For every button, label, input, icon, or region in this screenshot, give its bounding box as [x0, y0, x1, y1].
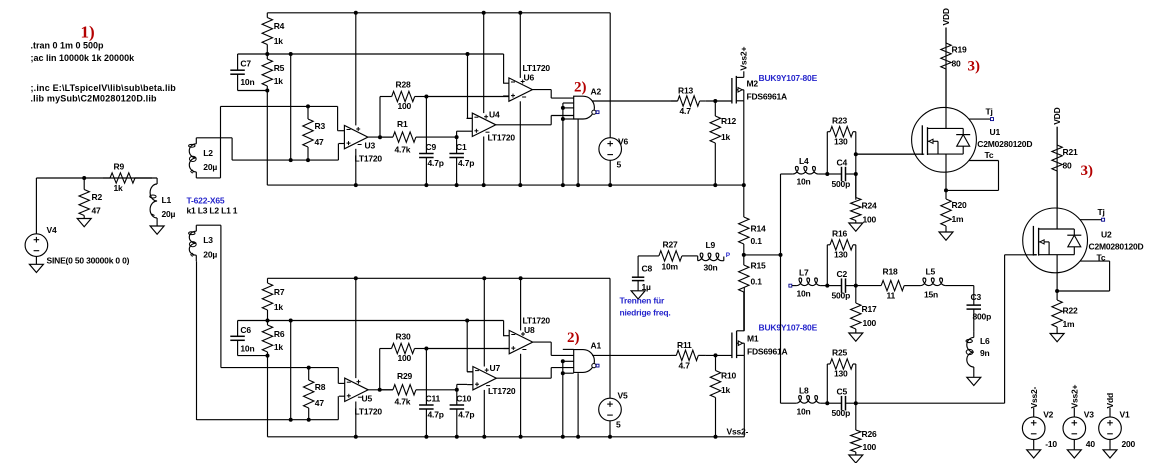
svg-text:Vss2-: Vss2-	[1029, 386, 1039, 408]
svg-text:M2: M2	[747, 79, 759, 89]
svg-text:10n: 10n	[240, 344, 254, 354]
svg-text:U1: U1	[990, 127, 1001, 137]
svg-text:R8: R8	[315, 382, 326, 392]
svg-text:200: 200	[1122, 439, 1136, 449]
svg-text:V4: V4	[47, 225, 57, 235]
svg-text:FDS6961A: FDS6961A	[747, 92, 788, 102]
svg-text:U8: U8	[524, 325, 535, 335]
svg-text:V5: V5	[618, 391, 628, 401]
svg-text:L8: L8	[799, 386, 809, 396]
svg-text:R25: R25	[832, 348, 847, 358]
svg-text:10m: 10m	[662, 262, 679, 272]
svg-text:LT1720: LT1720	[355, 154, 383, 164]
svg-text:4.7p: 4.7p	[458, 410, 474, 420]
svg-text:R7: R7	[274, 287, 285, 297]
svg-text:A2: A2	[591, 87, 602, 97]
svg-text:R13: R13	[678, 86, 693, 96]
svg-text:R22: R22	[1063, 306, 1078, 316]
svg-text:C2M0280120D: C2M0280120D	[1089, 242, 1144, 252]
svg-text:80: 80	[1063, 161, 1073, 171]
svg-text:Vss2+: Vss2+	[739, 47, 749, 71]
svg-text:L4: L4	[799, 156, 809, 166]
svg-text:R6: R6	[274, 329, 285, 339]
svg-text:10n: 10n	[797, 407, 811, 417]
svg-text:L2: L2	[203, 148, 213, 158]
svg-text:C2M0280120D: C2M0280120D	[977, 139, 1032, 149]
svg-text:R20: R20	[952, 200, 967, 210]
svg-text:FDS6961A: FDS6961A	[747, 347, 788, 357]
svg-text:4.7k: 4.7k	[395, 397, 411, 407]
svg-text:LT1720: LT1720	[488, 133, 516, 143]
svg-text:130: 130	[834, 250, 848, 260]
svg-text:11: 11	[887, 290, 896, 300]
svg-text:R10: R10	[721, 371, 736, 381]
svg-text:L1: L1	[162, 195, 172, 205]
svg-text:LT1720: LT1720	[523, 63, 551, 73]
svg-text:C1: C1	[456, 142, 467, 152]
svg-text:100: 100	[863, 215, 877, 225]
svg-text:20µ: 20µ	[203, 250, 217, 260]
svg-text:R4: R4	[274, 21, 285, 31]
svg-text:T-622-X65: T-622-X65	[187, 196, 225, 206]
svg-text:U5: U5	[362, 394, 373, 404]
svg-text:R16: R16	[832, 229, 847, 239]
svg-text:47: 47	[315, 137, 325, 147]
svg-text:10n: 10n	[797, 176, 811, 186]
svg-text:500p: 500p	[832, 291, 851, 301]
svg-text:130: 130	[834, 369, 848, 379]
svg-text:1k: 1k	[274, 76, 284, 86]
svg-text:500p: 500p	[832, 408, 851, 418]
svg-text:SINE(0 50 30000k 0 0): SINE(0 50 30000k 0 0)	[47, 256, 130, 266]
svg-text:R9: R9	[114, 162, 125, 172]
svg-text:1k: 1k	[274, 36, 284, 46]
svg-text:800p: 800p	[973, 312, 992, 322]
svg-text:2): 2)	[567, 330, 580, 346]
svg-text:U2: U2	[1101, 230, 1112, 240]
svg-text:R15: R15	[751, 261, 766, 271]
svg-text:C5: C5	[837, 387, 848, 397]
svg-text:1k: 1k	[721, 385, 731, 395]
svg-text:C8: C8	[642, 264, 653, 274]
svg-text:Trennen für: Trennen für	[620, 296, 665, 306]
svg-text:1): 1)	[81, 23, 95, 42]
svg-text:R30: R30	[396, 332, 411, 342]
svg-text:C4: C4	[837, 158, 848, 168]
svg-text:2): 2)	[574, 80, 587, 96]
svg-text:R11: R11	[677, 340, 692, 350]
svg-text:3): 3)	[968, 59, 981, 75]
svg-text:1k: 1k	[114, 183, 124, 193]
svg-text:C2: C2	[837, 269, 848, 279]
svg-text:0.1: 0.1	[751, 277, 763, 287]
svg-text:3): 3)	[1081, 163, 1094, 179]
svg-text:5: 5	[616, 420, 621, 430]
svg-text:4.7p: 4.7p	[428, 410, 444, 420]
svg-text:9n: 9n	[980, 348, 990, 358]
svg-text:R24: R24	[862, 201, 877, 211]
svg-text:R18: R18	[883, 267, 898, 277]
svg-text:.lib mySub\C2M0280120D.lib: .lib mySub\C2M0280120D.lib	[31, 94, 158, 104]
svg-text:VDD: VDD	[1052, 107, 1062, 124]
svg-text:1m: 1m	[1063, 319, 1076, 329]
svg-text:100: 100	[398, 101, 412, 111]
svg-text:C3: C3	[971, 292, 982, 302]
svg-text:R23: R23	[832, 116, 847, 126]
svg-text:4.7: 4.7	[679, 361, 691, 371]
svg-text:V1: V1	[1120, 409, 1130, 419]
svg-text:Tj: Tj	[986, 107, 993, 117]
svg-text:k1 L3 L2 L1 1: k1 L3 L2 L1 1	[187, 206, 238, 216]
svg-text:R17: R17	[862, 304, 877, 314]
svg-text:R12: R12	[721, 116, 736, 126]
svg-text:U6: U6	[524, 73, 535, 83]
svg-text:;ac lin 10000k 1k 20000k: ;ac lin 10000k 1k 20000k	[31, 53, 136, 63]
svg-text:-10: -10	[1045, 439, 1057, 449]
svg-text:BUK9Y107-80E: BUK9Y107-80E	[759, 323, 818, 333]
svg-text:R26: R26	[862, 429, 877, 439]
svg-text:15n: 15n	[924, 289, 938, 299]
svg-text:L7: L7	[799, 268, 809, 278]
svg-text:10n: 10n	[797, 289, 811, 299]
svg-text:80: 80	[952, 59, 962, 69]
svg-text:VDD: VDD	[941, 8, 951, 25]
svg-text:47: 47	[315, 398, 325, 408]
svg-text:5: 5	[617, 159, 622, 169]
svg-text:C7: C7	[240, 59, 251, 69]
svg-text:R28: R28	[396, 80, 411, 90]
svg-text:100: 100	[863, 442, 877, 452]
svg-text:U3: U3	[365, 141, 376, 151]
svg-text:L3: L3	[203, 235, 213, 245]
svg-text:U4: U4	[489, 110, 500, 120]
svg-text:L5: L5	[926, 267, 936, 277]
svg-text:30n: 30n	[704, 263, 718, 273]
svg-text:Tc: Tc	[1097, 253, 1106, 263]
svg-text:R29: R29	[397, 371, 412, 381]
svg-text:20µ: 20µ	[162, 209, 176, 219]
svg-text:LT1720: LT1720	[488, 386, 516, 396]
svg-text:47: 47	[92, 206, 102, 216]
svg-text:R21: R21	[1063, 147, 1078, 157]
svg-text:C11: C11	[426, 394, 441, 404]
svg-text:;.inc E:\LTspiceIV\lib\sub\bet: ;.inc E:\LTspiceIV\lib\sub\beta.lib	[31, 83, 177, 93]
svg-text:1k: 1k	[274, 302, 284, 312]
svg-text:U7: U7	[490, 363, 501, 373]
svg-text:LT1720: LT1720	[523, 316, 551, 326]
svg-text:Tj: Tj	[1098, 207, 1105, 217]
svg-text:Vss2+: Vss2+	[1070, 384, 1080, 408]
svg-text:R5: R5	[274, 63, 285, 73]
svg-text:V2: V2	[1043, 409, 1053, 419]
svg-text:1m: 1m	[952, 214, 965, 224]
svg-text:C6: C6	[240, 325, 251, 335]
svg-text:R1: R1	[397, 119, 408, 129]
svg-text:R2: R2	[92, 192, 103, 202]
svg-text:500p: 500p	[832, 179, 851, 189]
svg-text:L9: L9	[706, 240, 716, 250]
svg-text:100: 100	[398, 353, 412, 363]
svg-text:A1: A1	[591, 341, 602, 351]
svg-text:4.7k: 4.7k	[395, 145, 411, 155]
svg-text:Vdd: Vdd	[1105, 393, 1115, 408]
svg-text:10n: 10n	[240, 77, 254, 87]
svg-text:C10: C10	[456, 394, 471, 404]
svg-text:BUK9Y107-80E: BUK9Y107-80E	[759, 73, 818, 83]
svg-text:.tran 0 1m 0 500p: .tran 0 1m 0 500p	[31, 41, 105, 51]
svg-text:4.7p: 4.7p	[428, 158, 444, 168]
svg-text:R14: R14	[751, 224, 766, 234]
svg-text:niedrige freq.: niedrige freq.	[620, 308, 671, 318]
svg-text:R19: R19	[952, 45, 967, 55]
svg-text:1µ: 1µ	[642, 282, 652, 292]
svg-text:100: 100	[863, 318, 877, 328]
svg-text:20µ: 20µ	[203, 162, 217, 172]
svg-text:R27: R27	[663, 240, 678, 250]
svg-text:L6: L6	[980, 336, 990, 346]
svg-text:0.1: 0.1	[751, 236, 763, 246]
svg-text:V6: V6	[618, 136, 628, 146]
svg-text:LT1720: LT1720	[355, 407, 383, 417]
svg-text:1k: 1k	[721, 132, 731, 142]
svg-text:M1: M1	[747, 334, 759, 344]
svg-text:4.7: 4.7	[680, 106, 692, 116]
svg-text:1k: 1k	[274, 342, 284, 352]
svg-text:C9: C9	[426, 142, 437, 152]
svg-text:R3: R3	[315, 121, 326, 131]
svg-text:130: 130	[834, 137, 848, 147]
svg-text:40: 40	[1086, 439, 1096, 449]
svg-text:V3: V3	[1084, 409, 1094, 419]
svg-text:4.7p: 4.7p	[458, 158, 474, 168]
svg-text:Tc: Tc	[985, 150, 994, 160]
svg-text:Vss2-: Vss2-	[727, 427, 749, 437]
